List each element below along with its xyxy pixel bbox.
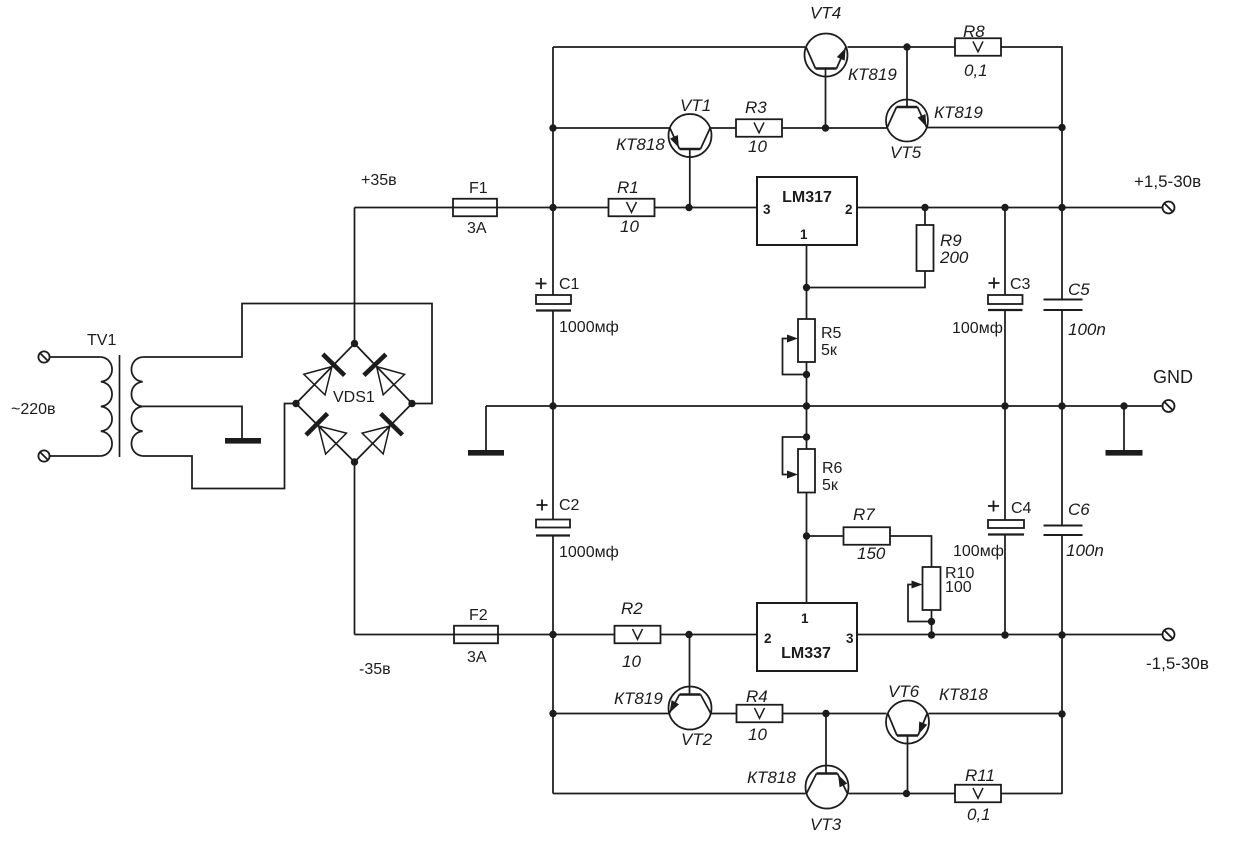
diode VDS1-4 (bottom-right arm)	[355, 404, 413, 463]
node adj junction	[803, 284, 810, 291]
label KT819 VT4	[848, 65, 897, 84]
svg-text:VT3: VT3	[810, 815, 842, 834]
label R2	[621, 599, 643, 618]
fuse F2	[454, 626, 498, 644]
svg-text:GND: GND	[1153, 367, 1193, 387]
node bridge bottom	[351, 458, 358, 465]
node C5 top junction	[1058, 204, 1065, 211]
label R8 value 0,1	[964, 61, 988, 80]
svg-text:C6: C6	[1068, 500, 1090, 519]
svg-text:F2: F2	[469, 607, 488, 624]
wire VT3 to R11	[849, 793, 956, 795]
transistor VT6	[886, 701, 929, 744]
node VT5 emitter junction	[1058, 124, 1065, 131]
terminal +1,5-30v	[1163, 202, 1175, 214]
svg-text:100мф: 100мф	[953, 543, 1004, 560]
label C2 value	[559, 544, 619, 561]
svg-text:100n: 100n	[1066, 541, 1104, 560]
label R6 value 5k	[822, 477, 839, 494]
wire main left vertical lower	[552, 536, 554, 794]
wire VT1 emitter	[553, 127, 670, 129]
resistor R3	[736, 119, 782, 137]
transistor VT2	[669, 687, 712, 730]
resistor R4	[737, 705, 783, 723]
svg-text:VT1: VT1	[680, 96, 711, 115]
node ground stub right junction	[1120, 402, 1127, 409]
label C6 value	[1066, 541, 1104, 560]
svg-text:F1: F1	[469, 180, 488, 197]
svg-text:R4: R4	[746, 687, 768, 706]
potentiometer R10	[908, 567, 941, 622]
label R9 value 200	[939, 248, 969, 267]
wire VT5 collector lead	[906, 47, 908, 107]
svg-text:R2: R2	[621, 599, 643, 618]
wire R4 to VT6	[783, 713, 887, 715]
label R6	[822, 460, 843, 477]
diode VDS1-2 (right-top arm)	[355, 344, 413, 404]
potentiometer R5	[783, 319, 816, 375]
node R5 wiper junction	[803, 371, 810, 378]
transistor VT4	[805, 34, 848, 77]
resistor R1	[609, 199, 655, 217]
ground center tap	[225, 438, 261, 444]
node F1/C1 junction	[549, 204, 556, 211]
transistor VT5	[886, 100, 928, 142]
node R10 output junction	[928, 631, 935, 638]
capacitor C6	[1044, 526, 1083, 536]
wire +35 to F1	[355, 207, 454, 209]
wire ground stub left	[485, 406, 487, 450]
label R3	[745, 98, 767, 117]
resistor R7	[844, 527, 891, 545]
svg-text:C1: C1	[559, 276, 580, 293]
label R3 value 10	[748, 137, 767, 156]
svg-text:R11: R11	[965, 766, 995, 785]
node R7 junction	[803, 532, 810, 539]
svg-text:5к: 5к	[822, 477, 839, 494]
label 3A F2	[467, 649, 487, 666]
node VT4 base junction	[822, 124, 829, 131]
label TV1	[87, 332, 116, 349]
svg-text:VT4: VT4	[810, 4, 841, 23]
svg-text:10: 10	[748, 725, 767, 744]
svg-text:КТ818: КТ818	[616, 135, 665, 154]
svg-text:VT2: VT2	[681, 730, 713, 749]
wire VT3 base lead	[825, 714, 827, 774]
label -35v	[359, 661, 391, 678]
node VT5 collector junction	[903, 43, 910, 50]
svg-text:150: 150	[857, 544, 886, 563]
label VT5	[890, 143, 922, 162]
svg-text:VT6: VT6	[888, 682, 920, 701]
label R11 value 0,1	[967, 805, 991, 824]
terminal GND	[1163, 400, 1175, 412]
svg-text:КТ819: КТ819	[614, 689, 663, 708]
wire VT2 base lead	[689, 635, 691, 695]
label C6	[1068, 500, 1090, 519]
label VT2	[681, 730, 713, 749]
node VT1 emitter rail junction	[549, 124, 556, 131]
wire VT5 emitter to output corner	[927, 127, 1062, 129]
label ~220v	[11, 401, 56, 418]
node VT6 emitter junction	[1058, 710, 1065, 717]
svg-text:-1,5-30в: -1,5-30в	[1146, 654, 1209, 673]
wire R1 to LM317	[655, 207, 758, 209]
svg-text:3: 3	[846, 631, 854, 646]
svg-text:TV1: TV1	[87, 332, 116, 349]
wire secondary center tap	[143, 406, 242, 438]
svg-text:100n: 100n	[1068, 320, 1106, 339]
diode VDS1-1 (left-top arm)	[296, 344, 355, 404]
wire adj to R5	[806, 288, 808, 320]
label VT1	[680, 96, 711, 115]
label C2	[559, 497, 580, 514]
node bridge left	[292, 400, 299, 407]
wire VT1 base lead	[689, 149, 691, 208]
node R6 wiper junction	[803, 433, 810, 440]
svg-text:R3: R3	[745, 98, 767, 117]
svg-text:-35в: -35в	[359, 661, 391, 678]
wire C3 top lead	[1004, 208, 1006, 296]
wire VT6 collector wire	[929, 713, 1063, 715]
wire VT2 emitter wire	[553, 713, 669, 715]
svg-text:100: 100	[945, 579, 972, 596]
terminal -1,5-30v	[1163, 629, 1175, 641]
label C3	[1010, 276, 1031, 293]
wire C3 bottom lead	[1004, 310, 1006, 406]
wire R11 to corner	[1001, 793, 1062, 795]
wire VT4 base lead	[825, 69, 827, 129]
wire R10 bottom lead	[931, 610, 933, 635]
wire F2 to R2	[498, 634, 615, 636]
potentiometer R6	[783, 437, 816, 493]
wire R7 left lead	[807, 535, 844, 537]
node VT1 base junction	[685, 204, 692, 211]
capacitor C3	[988, 278, 1023, 311]
wire R6 bottom lead	[806, 493, 808, 604]
label +35v	[361, 172, 397, 189]
svg-text:3A: 3A	[467, 649, 487, 666]
node C6 output junction	[1058, 631, 1065, 638]
resistor R8	[955, 38, 1001, 56]
node R9 top junction	[921, 204, 928, 211]
node C3 ground junction	[1001, 402, 1008, 409]
wire bus to R6	[806, 406, 808, 449]
wire F1 to R1	[497, 207, 609, 209]
node VT2 base junction	[685, 631, 692, 638]
capacitor C2	[536, 500, 570, 536]
svg-text:10: 10	[622, 652, 641, 671]
node F2/C2 junction	[549, 631, 556, 638]
wire C6 bottom vertical	[1061, 535, 1063, 794]
label VT6	[888, 682, 920, 701]
svg-text:~220в: ~220в	[11, 401, 56, 418]
transformer TV1 primary winding	[101, 357, 112, 456]
svg-text:10: 10	[748, 137, 767, 156]
svg-text:0,1: 0,1	[964, 61, 988, 80]
svg-text:R7: R7	[853, 505, 875, 524]
resistor R11	[955, 785, 1001, 803]
label F2	[469, 607, 488, 624]
wire R5 bottom lead	[806, 362, 808, 406]
label C4	[1011, 500, 1032, 517]
label KT819 VT2	[614, 689, 663, 708]
ground left	[468, 450, 504, 456]
wire R8 to corner	[1000, 47, 1062, 300]
diode VDS1-3 (bottom-left arm)	[296, 404, 355, 463]
svg-text:3: 3	[763, 202, 771, 217]
svg-text:LM317: LM317	[782, 189, 832, 206]
svg-text:VT5: VT5	[890, 143, 922, 162]
node bridge right	[408, 400, 415, 407]
label GND	[1153, 367, 1193, 387]
svg-text:LM337: LM337	[781, 645, 831, 662]
label C5	[1068, 280, 1090, 299]
label C5 value	[1068, 320, 1106, 339]
label C4 value	[953, 543, 1004, 560]
regulator U1 LM317	[757, 177, 857, 245]
wire ground stub right	[1123, 406, 1125, 450]
transistor VT1	[669, 114, 712, 157]
wire VT2 collector to R4	[711, 713, 737, 715]
capacitor C5	[1044, 300, 1083, 311]
wire main left vertical middle	[552, 311, 554, 520]
wire R7 to R10	[890, 536, 932, 567]
label C1	[559, 276, 580, 293]
svg-text:200: 200	[939, 248, 969, 267]
svg-text:КТ819: КТ819	[934, 103, 983, 122]
svg-text:2: 2	[764, 631, 772, 646]
wire C4 bottom lead	[1004, 535, 1006, 636]
node R10 wiper junction	[928, 618, 935, 625]
svg-text:5к: 5к	[821, 342, 838, 359]
regulator U2 LM337	[757, 603, 857, 671]
ground right	[1106, 450, 1143, 456]
node VT2 emitter rail junction	[549, 710, 556, 717]
wire secondary bottom to bridge left	[143, 404, 296, 489]
wire R9 bottom lead	[807, 271, 926, 288]
wire top rail	[553, 46, 805, 48]
label C1 value	[559, 319, 619, 336]
svg-text:2: 2	[845, 202, 853, 217]
transistor VT3	[806, 766, 849, 809]
wire C5-C6 vertical	[1061, 310, 1063, 526]
wire LM337 out to terminal	[857, 634, 1163, 636]
svg-text:1000мф: 1000мф	[559, 544, 619, 561]
label VT3	[810, 815, 842, 834]
label R9	[940, 231, 962, 250]
label KT818 VT3	[747, 768, 796, 787]
label 3A F1	[467, 220, 487, 237]
label R1	[617, 178, 639, 197]
wire VT1 collector to R3	[710, 127, 736, 129]
label F1	[469, 180, 488, 197]
label R5	[821, 325, 842, 342]
label +1,5-30v	[1134, 172, 1201, 191]
svg-text:1: 1	[800, 227, 808, 242]
svg-text:+35в: +35в	[361, 172, 397, 189]
svg-text:R5: R5	[821, 325, 842, 342]
wire bridge bottom dropper	[354, 462, 356, 635]
svg-text:КТ819: КТ819	[848, 65, 897, 84]
label -1,5-30v	[1146, 654, 1209, 673]
svg-text:3A: 3A	[467, 220, 487, 237]
wire LM317 out to terminal	[857, 207, 1163, 209]
svg-text:R8: R8	[963, 22, 985, 41]
svg-text:C3: C3	[1010, 276, 1031, 293]
svg-text:C5: C5	[1068, 280, 1090, 299]
resistor R9	[917, 225, 934, 271]
svg-text:C4: C4	[1011, 500, 1032, 517]
wire LM317 adj lead	[806, 245, 808, 288]
svg-text:1000мф: 1000мф	[559, 319, 619, 336]
resistor R2	[615, 626, 661, 644]
wire bridge top riser	[354, 208, 356, 344]
label R7 value 150	[857, 544, 886, 563]
node VT3 base junction	[822, 710, 829, 717]
wire secondary top to bridge right	[143, 304, 432, 404]
label R4 value 10	[748, 725, 767, 744]
terminal input bottom	[38, 450, 100, 461]
node C1 ground junction	[549, 402, 556, 409]
label R8	[963, 22, 985, 41]
capacitor C4	[988, 501, 1024, 535]
node C5 ground junction	[1058, 402, 1065, 409]
node R5/R6 ground junction	[803, 402, 810, 409]
svg-text:КТ818: КТ818	[939, 685, 988, 704]
wire main left vertical upper	[552, 47, 554, 295]
node VT6 base rail junction	[903, 790, 910, 797]
label R4	[746, 687, 768, 706]
wire bottom rail left	[553, 793, 806, 795]
wire R2 to LM337	[661, 634, 758, 636]
svg-text:R6: R6	[822, 460, 843, 477]
svg-text:КТ818: КТ818	[747, 768, 796, 787]
wire VT6 base lead	[907, 736, 909, 794]
label VT4	[810, 4, 841, 23]
label R11	[965, 766, 995, 785]
svg-text:VDS1: VDS1	[333, 389, 375, 406]
label R10 value 100	[945, 579, 972, 596]
svg-text:1: 1	[801, 611, 809, 626]
transformer TV1 core	[119, 355, 121, 457]
svg-text:C2: C2	[559, 497, 580, 514]
node C3 top junction	[1001, 204, 1008, 211]
wire ground bus	[486, 405, 1163, 407]
label KT818 VT1	[616, 135, 665, 154]
capacitor C1	[536, 278, 572, 311]
label KT818 VT6	[939, 685, 988, 704]
label R1 value 10	[620, 217, 639, 236]
transformer TV1 secondary winding	[131, 357, 142, 456]
label R2 value 10	[622, 652, 641, 671]
label KT819 VT5	[934, 103, 983, 122]
node C4 bottom junction	[1001, 631, 1008, 638]
label R7	[853, 505, 875, 524]
fuse F1	[453, 199, 497, 217]
svg-text:0,1: 0,1	[967, 805, 991, 824]
svg-text:10: 10	[620, 217, 639, 236]
label VDS1	[333, 389, 375, 406]
wire -35 to F2	[355, 634, 455, 636]
label R5 value 5k	[821, 342, 838, 359]
terminal input top	[38, 351, 100, 362]
node bridge top	[351, 340, 358, 347]
svg-text:+1,5-30в: +1,5-30в	[1134, 172, 1201, 191]
wire R3 to VT5	[782, 127, 887, 129]
wire C4 top lead	[1004, 406, 1006, 520]
label C3 value	[952, 320, 1003, 337]
wire R9 top lead	[924, 208, 926, 226]
svg-text:R1: R1	[617, 178, 639, 197]
wire top rail right of VT4	[848, 46, 956, 48]
label R10	[945, 565, 974, 582]
svg-text:100мф: 100мф	[952, 320, 1003, 337]
